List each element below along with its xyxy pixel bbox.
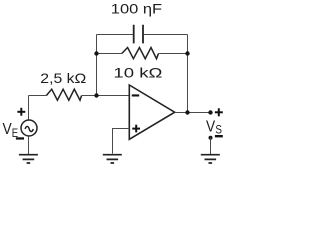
svg-text:V: V — [206, 119, 215, 136]
wire right vertical (cap branch to output node) — [187, 35, 189, 113]
wire capacitor to right vertical — [144, 34, 188, 36]
wire Vs terminal to ground — [210, 138, 212, 155]
label Vs — [206, 119, 222, 137]
node feedback right — [185, 51, 189, 55]
node output feedback junction — [185, 110, 189, 114]
wire resistor R2 to right vertical — [159, 53, 188, 55]
wire source to resistor R1 — [29, 95, 47, 97]
op-amp inverting input minus symbol — [132, 94, 139, 96]
label VE — [3, 121, 19, 140]
wire left node to resistor R2 — [97, 53, 122, 55]
wire non-inverting input to ground — [113, 129, 130, 154]
polarity plus (Vs) — [215, 108, 223, 116]
polarity minus (Vs) — [215, 135, 223, 137]
wire top-left to capacitor — [97, 34, 134, 36]
label 100 nF (C1 value) — [111, 0, 162, 16]
polarity minus (VE) — [16, 137, 24, 139]
wire op-amp output — [175, 112, 211, 114]
terminal Vs ground — [209, 136, 213, 140]
node inverting input — [94, 93, 98, 97]
resistor R1 2,5 kOhm — [46, 89, 81, 100]
svg-text:100 ηF: 100 ηF — [111, 0, 162, 16]
resistor R2 10 kOhm — [122, 48, 159, 59]
AC source VE — [21, 120, 37, 136]
wire resistor R1 to inverting input — [82, 95, 130, 97]
label 10 kOhm (R2 value) — [113, 65, 162, 81]
polarity plus (VE) — [17, 108, 25, 116]
label 2,5 kOhm (R1 value) — [40, 70, 86, 86]
op-amp U1 — [129, 85, 174, 139]
svg-text:10 kΩ: 10 kΩ — [113, 65, 162, 81]
ground (Vs) — [201, 155, 220, 163]
wire left vertical (cap branch to input node) — [96, 35, 98, 96]
terminal output — [208, 110, 212, 114]
svg-text:V: V — [3, 121, 12, 138]
svg-text:S: S — [215, 122, 222, 136]
wire source to ground — [28, 136, 30, 155]
capacitor C1 — [134, 25, 143, 44]
ground (non-inverting input) — [103, 155, 122, 163]
node feedback left — [94, 51, 98, 55]
wire input node down to source — [28, 96, 30, 121]
svg-text:2,5 kΩ: 2,5 kΩ — [40, 70, 86, 86]
ground (VE) — [19, 155, 38, 163]
op-amp non-inverting input plus symbol — [132, 125, 140, 133]
